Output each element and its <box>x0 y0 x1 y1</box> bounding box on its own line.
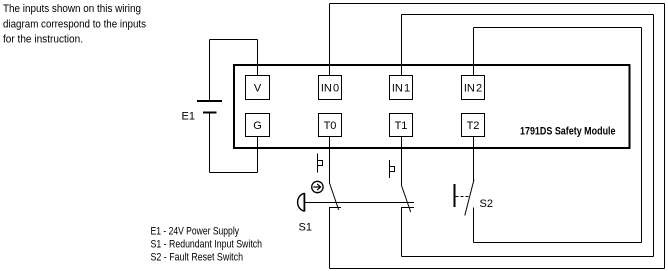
terminal box T0 <box>319 114 342 137</box>
wire down to V <box>257 40 259 76</box>
wire T0 contact down <box>329 208 331 269</box>
svg-text:V: V <box>254 83 262 95</box>
svg-text:S1: S1 <box>299 222 312 234</box>
terminal box IN2 <box>462 76 485 100</box>
wire E1+ top horizontal <box>210 39 258 41</box>
svg-text:T0: T0 <box>324 120 337 132</box>
wire IN1 up <box>401 15 403 76</box>
wire top run IN2 loop <box>474 27 642 29</box>
wire IN2 up <box>473 28 475 76</box>
svg-text:E1 - 24V Power Supply: E1 - 24V Power Supply <box>151 226 240 238</box>
switch S1 blade a (T0) <box>330 183 339 210</box>
svg-text:IN2: IN2 <box>464 83 482 95</box>
svg-text:S2: S2 <box>480 198 493 210</box>
svg-text:G: G <box>253 120 262 132</box>
wire T2 to switch <box>473 137 475 183</box>
wire bottom run IN2 loop <box>474 242 642 244</box>
S1 actuator notch on T0 contact <box>318 154 323 173</box>
svg-text:for the instruction.: for the instruction. <box>3 34 83 46</box>
svg-text:T2: T2 <box>467 120 480 132</box>
wire T0 to switch <box>329 137 331 184</box>
wire right side IN1 loop <box>653 15 655 257</box>
svg-text:E1: E1 <box>182 111 195 123</box>
terminal box V <box>246 76 270 100</box>
S1 mushroom button head <box>303 193 305 212</box>
battery E1 positive plate <box>197 100 222 102</box>
wire top run IN0 loop <box>330 3 665 5</box>
wire T1 contact down <box>401 208 403 257</box>
switch S1 contact a terminal bar <box>329 207 341 209</box>
wire E1- down <box>209 113 211 173</box>
S1 direct-opening-action symbol (circle with arrow) <box>312 181 323 192</box>
wire IN0 up <box>329 4 331 76</box>
wire E1+ up <box>209 40 211 101</box>
svg-text:IN0: IN0 <box>321 83 339 95</box>
switch S2 push bar <box>454 184 456 207</box>
terminal box T1 <box>390 114 413 137</box>
wire right side IN0 loop <box>664 4 666 269</box>
svg-text:T1: T1 <box>395 120 408 132</box>
svg-text:The inputs shown on this wirin: The inputs shown on this wiring <box>3 3 141 15</box>
svg-text:S2 - Fault Reset Switch: S2 - Fault Reset Switch <box>151 252 244 264</box>
wire right side IN2 loop <box>641 28 643 243</box>
S1 mechanical linkage line <box>305 202 414 204</box>
terminal box IN0 <box>319 76 342 100</box>
svg-text:IN1: IN1 <box>392 83 410 95</box>
terminal box T2 <box>462 114 485 137</box>
wire top run IN1 loop <box>402 14 654 16</box>
switch S1 contact b terminal bar <box>401 207 414 209</box>
switch S2 linkage dashes <box>456 196 470 198</box>
svg-text:1791DS Safety Module: 1791DS Safety Module <box>520 126 616 138</box>
module U1 1791DS outline <box>234 65 630 148</box>
wire E1- bottom horizontal <box>210 172 258 174</box>
svg-text:diagram correspond to the inpu: diagram correspond to the inputs <box>3 18 146 30</box>
wire S2 contact down <box>473 208 475 243</box>
wire bottom run IN0 loop <box>330 268 665 270</box>
wire bottom run IN1 loop <box>402 256 654 258</box>
switch S1 blade b (T1) <box>402 186 411 213</box>
switch S2 blade <box>465 180 474 216</box>
S1 actuator notch on T1 contact <box>390 160 395 178</box>
wire up to G <box>257 137 259 173</box>
svg-text:S1 - Redundant Input Switch: S1 - Redundant Input Switch <box>151 239 263 251</box>
terminal box IN1 <box>390 76 413 100</box>
wire T1 to switch <box>401 137 403 186</box>
battery E1 negative plate <box>203 112 217 114</box>
terminal box G <box>246 114 270 137</box>
